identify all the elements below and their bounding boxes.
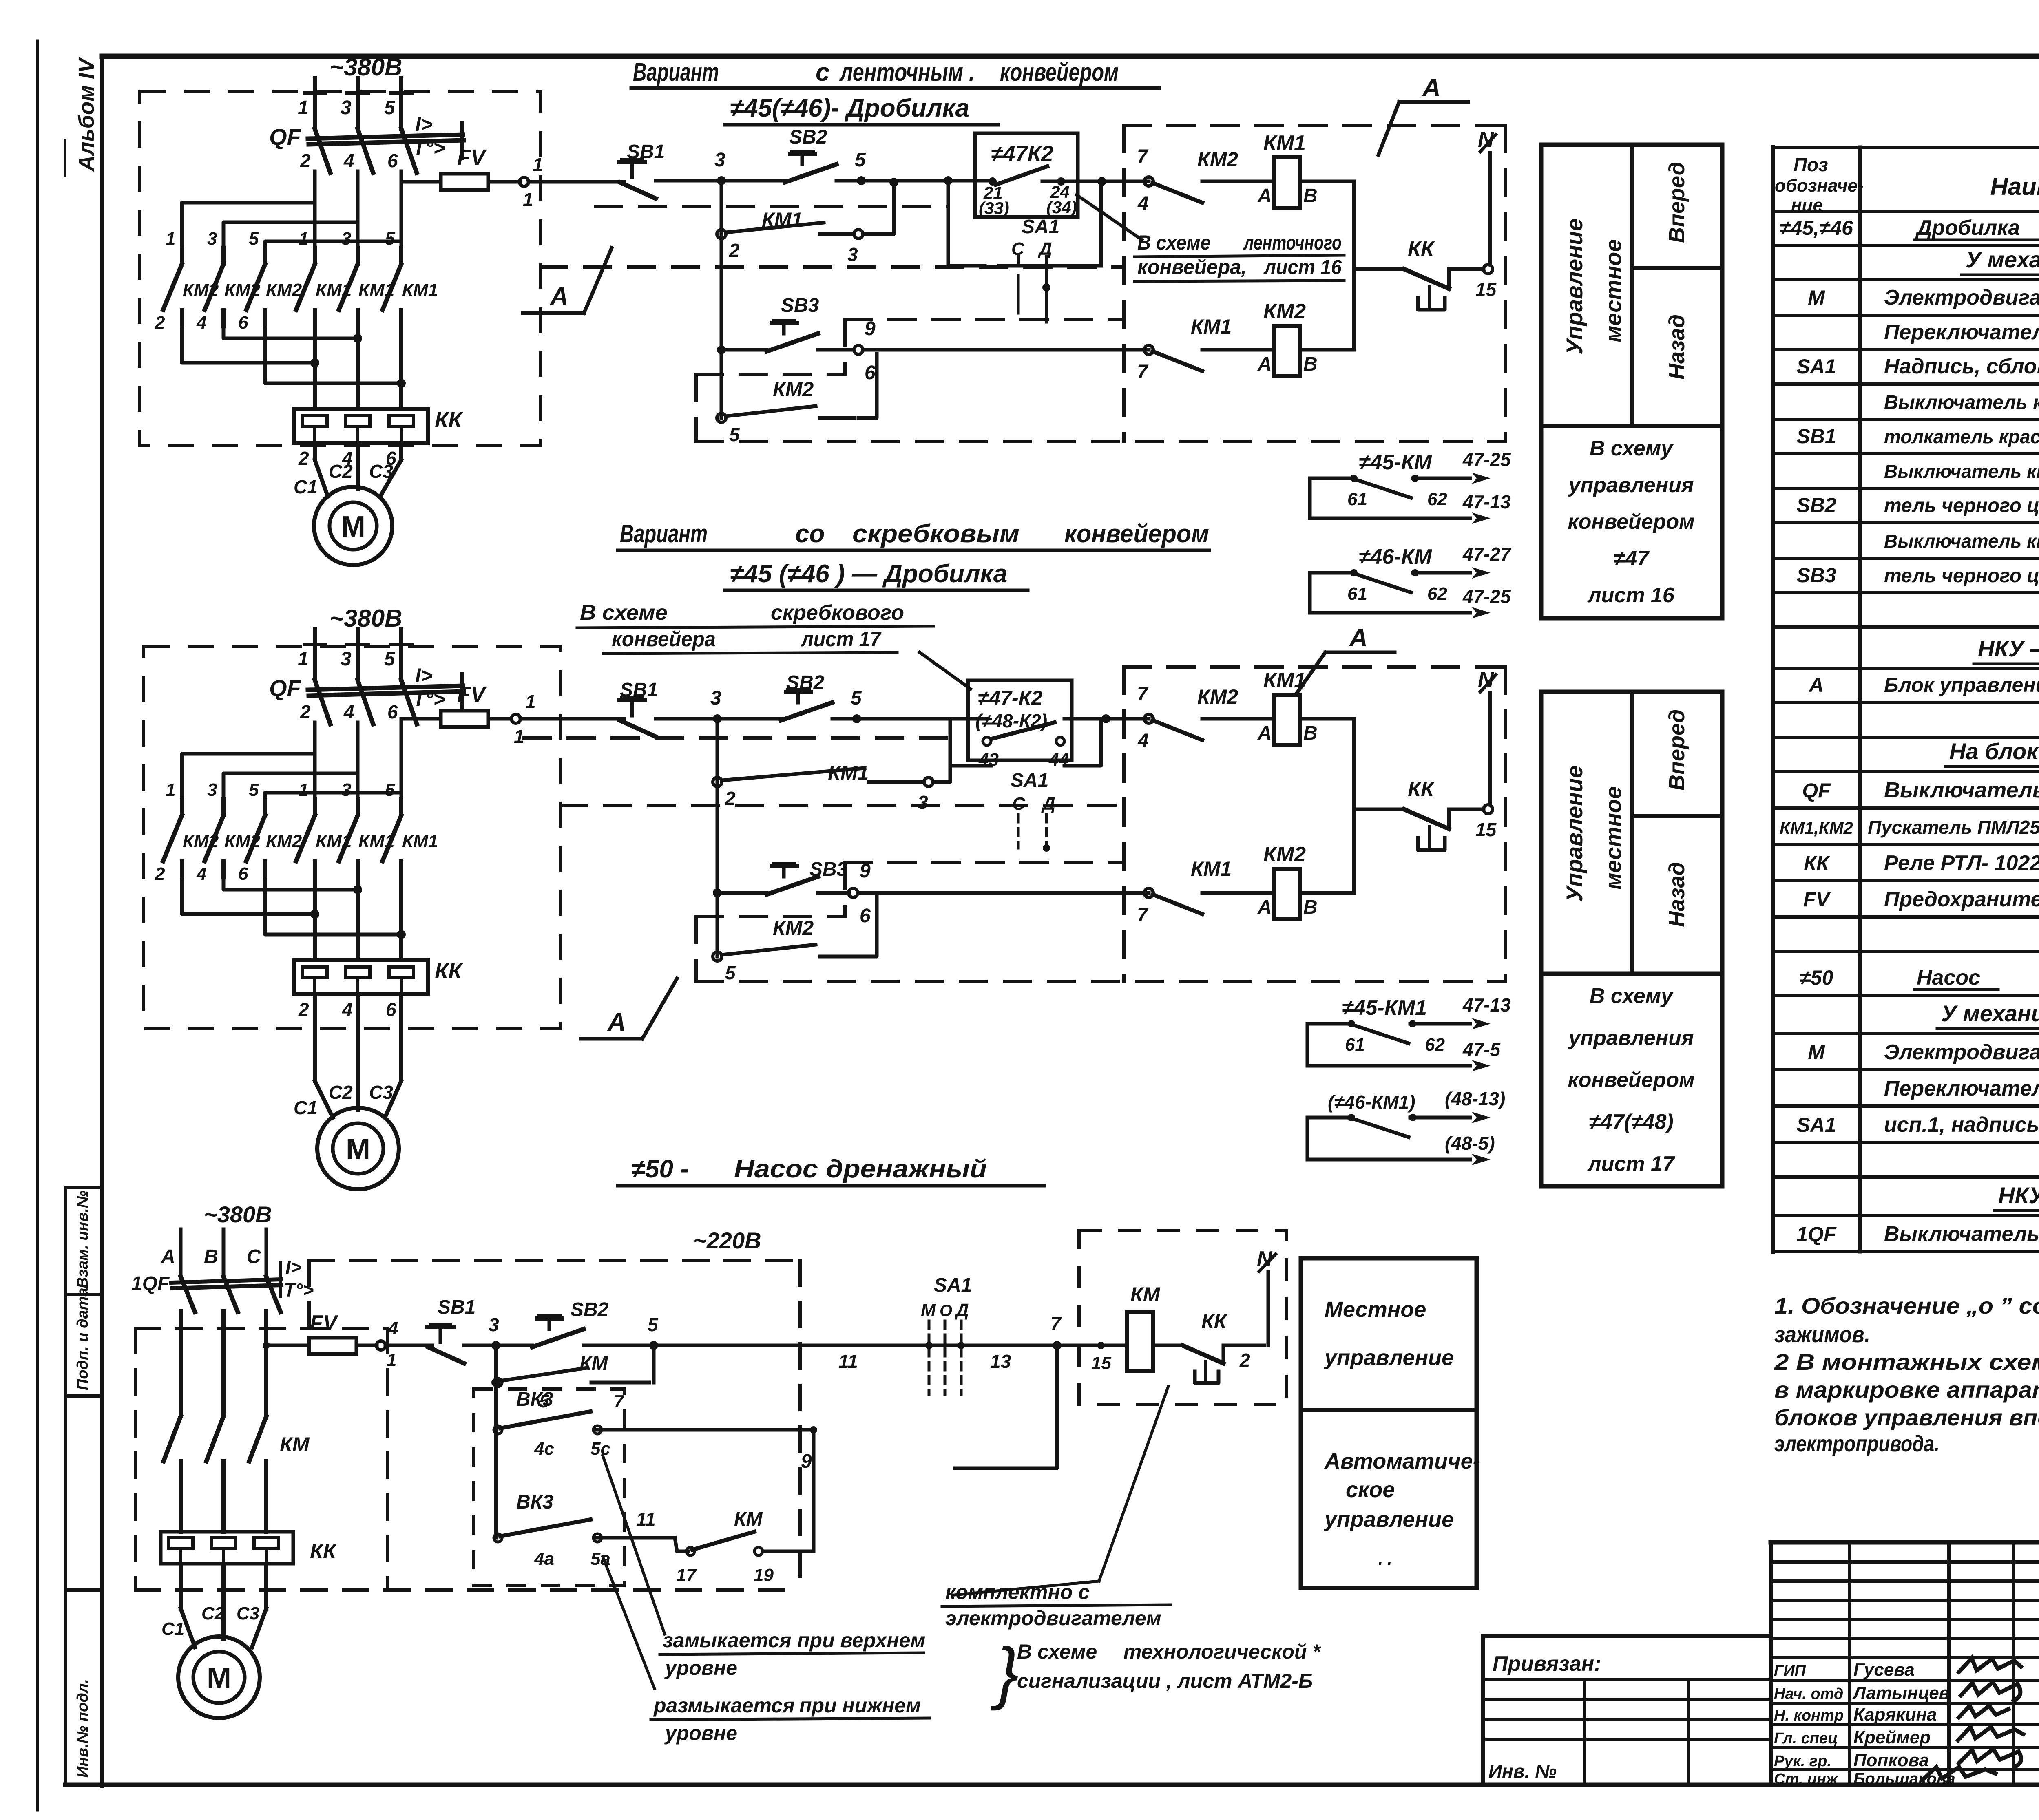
svg-text:Надпись, сблокир—деблокир. ”: Надпись, сблокир—деблокир. ”: [1884, 355, 2039, 378]
pump thermal relay KK heaters: [161, 1532, 293, 1564]
svg-text:А: А: [1257, 353, 1272, 375]
title block outer: [1771, 1540, 2039, 1545]
svg-text:1: 1: [533, 154, 543, 175]
pump node 5: [649, 1341, 658, 1350]
svg-text:17: 17: [676, 1565, 697, 1585]
callout to conveyor scheme: [1077, 195, 1142, 240]
svg-text:сигнализации , лист АТМ2-Б: сигнализации , лист АТМ2-Б: [1017, 1670, 1313, 1692]
svg-text:местное: местное: [1600, 786, 1626, 890]
wire SB2 to node 5 v2: [832, 717, 857, 721]
svg-text:4: 4: [343, 150, 354, 171]
pump phase A: [179, 1229, 183, 1277]
neutral N wire: [1488, 153, 1492, 265]
svg-text:≠47: ≠47: [1614, 547, 1650, 570]
pump contactor coil KM: [1127, 1312, 1153, 1371]
svg-text:ВК3: ВК3: [516, 1389, 553, 1410]
svg-text:Управление: Управление: [1561, 766, 1587, 902]
svg-text:уровне: уровне: [664, 1657, 737, 1679]
svg-text:лист 16: лист 16: [1587, 583, 1675, 607]
svg-text:≠45,≠46: ≠45,≠46: [1780, 216, 1853, 239]
svg-text:Пускатель ПМЛ250104Б с прист: Пускатель ПМЛ250104Б с приставкой ПКЛ220…: [1868, 817, 2039, 838]
svg-text:2: 2: [1239, 1350, 1250, 1371]
svg-text:~380В: ~380В: [330, 53, 402, 81]
SA1 selector bracket v2: [950, 719, 991, 766]
svg-text:7: 7: [1137, 904, 1149, 926]
svg-text:конвейера: конвейера: [612, 627, 716, 651]
svg-text:(≠46-КМ1): (≠46-КМ1): [1328, 1091, 1415, 1113]
svg-text:4: 4: [342, 999, 353, 1020]
svg-text:5: 5: [384, 648, 396, 670]
svg-text:На блоке управления: На блоке управления: [1949, 738, 2039, 764]
svg-text:Выключатель кнопочный КЕ 08: Выключатель кнопочный КЕ 081, исп2 , тол…: [1884, 461, 2039, 482]
pump node 3: [491, 1341, 500, 1350]
svg-text:62: 62: [1427, 489, 1447, 509]
svg-text:5: 5: [729, 424, 740, 445]
svg-text:Альбом IV: Альбом IV: [74, 57, 99, 172]
svg-text:С2: С2: [201, 1604, 225, 1623]
svg-text:ленточного: ленточного: [1243, 231, 1342, 254]
svg-text:1: 1: [299, 780, 308, 800]
svg-text:управление: управление: [1323, 1345, 1454, 1370]
svg-text:КК: КК: [1408, 237, 1435, 261]
node 7 terminal: [1144, 177, 1153, 186]
svg-text:~380В: ~380В: [204, 1202, 272, 1227]
svg-text:3: 3: [918, 792, 928, 813]
wire KM1 aux to node: [820, 232, 854, 236]
node 9 terminal v2: [849, 888, 858, 897]
interlock contact 47K2 box: [975, 133, 1078, 217]
svg-text:SA1: SA1: [1796, 355, 1836, 378]
svg-text:управление: управление: [1323, 1507, 1454, 1532]
svg-text:SA1: SA1: [1011, 770, 1048, 791]
svg-text:О: О: [940, 1302, 952, 1320]
float switch note lower: [603, 1557, 655, 1689]
svg-text:1QF: 1QF: [131, 1273, 170, 1294]
svg-text:С2: С2: [329, 461, 353, 482]
contactor coil КМ1: [1274, 695, 1300, 745]
svg-text:Взам. инв.№: Взам. инв.№: [74, 1191, 91, 1288]
legend box control local: [1541, 145, 1722, 426]
svg-text:зажимов.: зажимов.: [1774, 1321, 1870, 1347]
svg-text:А: А: [1257, 722, 1272, 744]
svg-text:4: 4: [388, 1318, 398, 1338]
wire QF outputs: [313, 722, 317, 754]
svg-text:В: В: [1303, 722, 1318, 744]
svg-text:с: с: [816, 58, 829, 86]
svg-text:КМ1: КМ1: [402, 280, 438, 300]
block A dashed box variant1: [1124, 124, 1506, 127]
pump node 15: [1097, 1342, 1105, 1349]
thermal relay KK contact: [1404, 809, 1449, 829]
name table grid: [1771, 1560, 2039, 1564]
svg-text:2: 2: [298, 999, 309, 1020]
pump neutral N: [1267, 1272, 1270, 1345]
privyazan box: [1483, 1634, 1771, 1638]
wire coil KM1 to right bus: [1300, 180, 1354, 183]
wire to KK contact v2: [1354, 808, 1404, 811]
wire to motor: [313, 994, 317, 1081]
svg-text:47-5: 47-5: [1462, 1039, 1501, 1060]
pump fuse FV: [309, 1338, 356, 1354]
svg-text:≠45(≠46)- Дробилка: ≠45(≠46)- Дробилка: [730, 94, 969, 122]
wire jumper to KM2 pole 3: [400, 182, 403, 241]
aux contact KM2 self-hold row v2: [713, 952, 722, 961]
svg-text:1: 1: [166, 229, 175, 249]
svg-text:Креймер: Креймер: [1853, 1727, 1931, 1747]
svg-text:конвейером: конвейером: [1568, 1068, 1694, 1092]
QF release bracket I> T>: [460, 674, 464, 709]
svg-text:4: 4: [1137, 193, 1149, 214]
svg-text:7: 7: [1137, 683, 1149, 705]
svg-text:5: 5: [851, 687, 862, 709]
node junction before 47K2: [944, 176, 953, 185]
motor M: [317, 1108, 399, 1189]
svg-text:SA1: SA1: [934, 1274, 972, 1296]
wire phase 1: [313, 78, 317, 129]
fuse FV: [441, 711, 488, 727]
block A dashed box variant2: [1124, 665, 1506, 669]
wire phase 5: [399, 629, 403, 680]
svg-text:Привязан:: Привязан:: [1493, 1652, 1601, 1676]
sheet border frame: [102, 54, 2039, 59]
svg-text:~380В: ~380В: [330, 605, 402, 632]
variant 2 power block dashed outline: [144, 646, 560, 1028]
svg-text:обозначе-: обозначе-: [1775, 176, 1864, 196]
svg-text:Назад: Назад: [1665, 314, 1689, 380]
wire phase 1: [313, 629, 317, 680]
sheet outer margin line: [36, 41, 39, 1810]
svg-text:13: 13: [990, 1351, 1011, 1372]
svg-text:Вперед: Вперед: [1665, 709, 1689, 791]
svg-text:2: 2: [298, 448, 309, 469]
legend box control local: [1541, 692, 1722, 974]
svg-text:Переключатель управления: Переключатель управления ПЕ 071, исп.1: [1884, 320, 2039, 344]
svg-text:У механизма: У механизма: [1966, 247, 2039, 272]
wire to motor: [313, 443, 317, 460]
svg-text:62: 62: [1427, 584, 1447, 604]
contactor coil КМ2: [1274, 869, 1300, 919]
47K2 contact blade: [996, 166, 1047, 185]
svg-text:конвейера,: конвейера,: [1137, 256, 1247, 278]
svg-text:(48-13): (48-13): [1445, 1088, 1505, 1109]
svg-text:SA1: SA1: [1022, 216, 1059, 238]
svg-text:≠50: ≠50: [1799, 966, 1833, 989]
svg-text:Электродвигатель ГНОМ 1: Электродвигатель ГНОМ 16-15: [1884, 1040, 2039, 1064]
svg-text:47-27: 47-27: [1462, 543, 1512, 565]
wire phase 3: [356, 78, 360, 129]
node 9 terminal: [854, 345, 863, 354]
svg-text:КМ1: КМ1: [828, 762, 869, 784]
aux contact KM1 self-hold row v2: [713, 777, 722, 786]
node 7 row2 terminal: [1144, 345, 1153, 354]
svg-text:В схему: В схему: [1590, 984, 1674, 1008]
legend box to conveyor scheme: [1541, 426, 1722, 618]
svg-text:1: 1: [298, 97, 309, 119]
svg-text:3: 3: [489, 1314, 499, 1335]
svg-text:Переключатель управления: Переключатель управления ПЕ 081: [1884, 1077, 2039, 1100]
svg-text:М: М: [921, 1300, 936, 1320]
svg-text:Вперед: Вперед: [1665, 162, 1689, 243]
float switch dashed box: [473, 1389, 624, 1585]
svg-text:FV: FV: [457, 145, 487, 170]
svg-text:управления: управления: [1567, 473, 1694, 497]
svg-text:3: 3: [710, 687, 721, 709]
node 15 terminal: [1484, 265, 1493, 274]
svg-text:С1: С1: [294, 1097, 318, 1118]
svg-text:лист 17: лист 17: [1587, 1152, 1675, 1176]
motor M: [314, 487, 392, 565]
svg-text:ние: ние: [1791, 195, 1823, 215]
svg-text:SB2: SB2: [789, 126, 827, 148]
node 5 v2: [852, 714, 861, 723]
thermal relay KK heaters: [294, 960, 428, 994]
svg-text:4с: 4с: [534, 1439, 554, 1459]
node 3: [717, 176, 726, 185]
svg-text:T°>: T°>: [413, 688, 445, 711]
svg-text:SB3: SB3: [781, 295, 819, 316]
svg-text:2: 2: [725, 788, 736, 809]
svg-text:61: 61: [1345, 1035, 1365, 1055]
svg-text:лист 17: лист 17: [800, 627, 882, 651]
svg-text:Д: Д: [1037, 239, 1052, 259]
svg-text:1: 1: [166, 780, 175, 800]
svg-text:SA1: SA1: [1796, 1113, 1836, 1136]
svg-text:скребкового: скребкового: [771, 601, 904, 625]
svg-text:Назад: Назад: [1665, 862, 1689, 927]
wire coil KM1 to right bus v2: [1300, 717, 1354, 721]
svg-text:1QF: 1QF: [1796, 1223, 1837, 1246]
svg-text:Насос дренажный: Насос дренажный: [734, 1155, 987, 1183]
svg-text:6: 6: [387, 150, 398, 171]
wire contact outputs merge: [223, 326, 358, 338]
svg-text:5: 5: [648, 1314, 659, 1335]
svg-text:КК: КК: [310, 1539, 337, 1563]
svg-text:2: 2: [300, 150, 311, 171]
svg-text:У механизма: У механизма: [1941, 1001, 2039, 1026]
svg-text:А: А: [607, 1008, 626, 1036]
47K2 terminals: [989, 177, 997, 186]
svg-text:Гусева: Гусева: [1853, 1660, 1915, 1680]
svg-text:3: 3: [714, 149, 725, 171]
svg-text:замыкается: замыкается: [663, 1629, 792, 1652]
svg-text:размыкается: размыкается: [653, 1694, 795, 1717]
svg-text:5: 5: [385, 780, 395, 800]
wire phase 5: [399, 78, 403, 129]
QF release bracket I> T>: [460, 122, 464, 158]
wire KK to node 15 v2: [1449, 808, 1484, 811]
svg-text:А: А: [1422, 74, 1441, 102]
svg-text:7: 7: [1137, 146, 1149, 168]
svg-text:КК: КК: [435, 959, 463, 983]
svg-text:4: 4: [343, 701, 354, 722]
svg-text:со: со: [795, 520, 825, 548]
SA1 selector bracket: [948, 181, 985, 266]
svg-text:Вариант: Вариант: [620, 520, 708, 548]
contactor coil КМ2: [1274, 326, 1300, 376]
svg-text:КМ2: КМ2: [266, 831, 302, 851]
svg-text:конвейером: конвейером: [1000, 58, 1119, 86]
svg-text:QF: QF: [269, 124, 302, 150]
svg-text:ленточным .: ленточным .: [839, 58, 975, 86]
svg-text:исп.1, надпись „местн. -0: исп.1, надпись „местн. -0- дист.”: [1884, 1113, 2039, 1137]
pump node terminal 4/1: [376, 1341, 385, 1350]
svg-text:С1: С1: [294, 476, 318, 497]
variant2 dashed boundary mid: [560, 804, 1121, 807]
components table grid: [1773, 146, 2039, 149]
svg-text:3: 3: [341, 229, 351, 249]
svg-text:В: В: [1303, 185, 1318, 207]
svg-text:комплектно с: комплектно с: [945, 1581, 1090, 1604]
neutral N wire v2: [1488, 693, 1492, 805]
local control box: [1301, 1258, 1477, 1588]
svg-text:5: 5: [385, 229, 395, 249]
svg-text:Выключатель кнопочный КЕ: Выключатель кнопочный КЕ 081, исп.2,толк…: [1884, 530, 2039, 552]
svg-text:1: 1: [387, 1350, 396, 1370]
thermal relay KK contact: [1404, 269, 1449, 289]
svg-text:местное: местное: [1600, 239, 1626, 342]
svg-text:НКУ — Щит 6Щ: НКУ — Щит 6Щ: [1978, 636, 2039, 661]
svg-text:SB2: SB2: [1796, 494, 1836, 517]
svg-text:КМ2: КМ2: [1263, 300, 1306, 323]
wire node3 vertical v2: [716, 719, 719, 956]
svg-text:3: 3: [341, 648, 352, 670]
svg-text:Рук. гр.: Рук. гр.: [1774, 1753, 1831, 1770]
svg-text:47-13: 47-13: [1462, 994, 1511, 1016]
svg-text:C: C: [247, 1246, 261, 1268]
svg-text:Вариант: Вариант: [633, 58, 719, 86]
svg-text:FV: FV: [310, 1311, 339, 1335]
svg-text:КМ1: КМ1: [1191, 315, 1232, 338]
variant2 dashed boundary lower path: [845, 861, 1124, 864]
contactor coil КМ1: [1274, 157, 1300, 208]
svg-text:Дробилка: Дробилка: [1915, 216, 2020, 240]
svg-text:4: 4: [196, 864, 206, 884]
svg-text:(48-5): (48-5): [1445, 1133, 1495, 1154]
svg-text:толкатель красного цвета, н: толкатель красного цвета, надпись„ Стоп …: [1884, 426, 2039, 447]
svg-text:I>: I>: [285, 1257, 302, 1278]
svg-text:QF: QF: [1802, 779, 1831, 802]
svg-text:≠47-К2: ≠47-К2: [978, 687, 1042, 709]
svg-text:SB3: SB3: [1796, 564, 1836, 587]
svg-text:КК: КК: [1408, 777, 1435, 801]
svg-text:Карякина: Карякина: [1853, 1705, 1937, 1725]
svg-text:11: 11: [636, 1509, 656, 1530]
comment leader to motor assembly: [1099, 1386, 1168, 1581]
svg-text:4: 4: [1137, 730, 1149, 752]
svg-text:2: 2: [155, 864, 165, 884]
svg-text:ГИП: ГИП: [1774, 1662, 1806, 1679]
thermal relay KK heaters: [294, 409, 428, 443]
variant1 dashed boundary upper: [595, 205, 948, 208]
svg-text:15: 15: [1475, 279, 1497, 300]
svg-text:Выключатель АЕ 2026 -10: Выключатель АЕ 2026 -10У3: [1884, 1222, 2039, 1246]
wire jumper to KM2 pole 2: [223, 773, 358, 799]
svg-text:КМ1: КМ1: [402, 831, 438, 851]
interlock contact 47-K2 box v2: [968, 680, 1072, 760]
svg-text:М: М: [207, 1662, 231, 1694]
svg-text:Выключатель АЕ 2036 - 10У3: Выключатель АЕ 2036 - 10У3: [1884, 778, 2039, 802]
svg-text:А: А: [1257, 185, 1272, 207]
pump phase C: [265, 1229, 268, 1277]
1QF release bracket: [279, 1263, 282, 1297]
svg-text:≠47(≠48): ≠47(≠48): [1589, 1110, 1673, 1134]
svg-text:В схеме: В схеме: [1017, 1640, 1097, 1663]
pump control wire: [266, 1344, 309, 1347]
svg-text:Поз: Поз: [1794, 154, 1828, 175]
svg-text:С2: С2: [329, 1082, 353, 1103]
svg-text:6: 6: [860, 905, 871, 927]
svg-text:FV: FV: [1803, 888, 1831, 911]
svg-text:КМ2: КМ2: [773, 378, 814, 401]
svg-text:3: 3: [341, 97, 352, 119]
svg-text:≠50 -: ≠50 -: [631, 1155, 689, 1183]
svg-text:лист 16: лист 16: [1263, 256, 1342, 278]
svg-text:15: 15: [1475, 819, 1497, 840]
pump block dashed box: [1079, 1230, 1287, 1404]
svg-text:Управление: Управление: [1561, 219, 1587, 355]
pump KM self-hold branch: [494, 1345, 498, 1383]
left margin stamp boxes: [64, 1187, 67, 1785]
svg-text:С3: С3: [369, 1082, 393, 1103]
svg-text:1: 1: [523, 189, 533, 210]
svg-text:Электродвигатель 4А160S6: Электродвигатель 4А160S6: [1884, 286, 2039, 309]
svg-text:КМ: КМ: [280, 1433, 310, 1456]
47-K2 contact blade v2: [992, 722, 1055, 739]
node junction after 47K2 v2: [1101, 714, 1110, 723]
signatures: [1957, 1658, 2022, 1674]
aux contact KM1 self-hold row: [717, 230, 726, 239]
svg-text:≠45-КМ1: ≠45-КМ1: [1342, 996, 1427, 1020]
svg-text:1: 1: [525, 691, 536, 712]
svg-text:SB1: SB1: [1796, 425, 1836, 448]
svg-text:Местное: Местное: [1325, 1297, 1426, 1322]
svg-text:Предохранитель ППТ- 10У3: Предохранитель ППТ- 10У3: [1884, 888, 2039, 911]
svg-text:Подп. и дата: Подп. и дата: [74, 1288, 91, 1390]
47-K2 terminals v2: [983, 737, 991, 745]
svg-text:I>: I>: [415, 113, 433, 136]
svg-text:(34): (34): [1046, 198, 1077, 217]
svg-text:КМ: КМ: [734, 1509, 763, 1530]
svg-text:Автоматиче-: Автоматиче-: [1324, 1449, 1480, 1473]
svg-text:Выключатель кнопочный КЕ: Выключатель кнопочный КЕ 081, исп.2,: [1884, 392, 2039, 413]
svg-text:5: 5: [855, 149, 866, 171]
node 3 v2: [713, 714, 722, 723]
svg-text:Н. контр: Н. контр: [1774, 1707, 1844, 1724]
svg-text:А: А: [1257, 897, 1272, 918]
wire coil KM2 to right bus: [1300, 348, 1354, 352]
wire to KK contact: [1354, 267, 1404, 271]
svg-text:А: А: [549, 283, 568, 311]
svg-text:КК: КК: [1201, 1310, 1228, 1333]
svg-text:С3: С3: [237, 1604, 259, 1623]
svg-text:2: 2: [155, 313, 165, 333]
svg-text:FV: FV: [457, 682, 487, 707]
wire node3 vertical: [720, 181, 723, 418]
svg-text:Попкова: Попкова: [1853, 1750, 1929, 1770]
svg-text:1. Обозначение „о ” соотве: 1. Обозначение „о ” соответствует заводс…: [1774, 1293, 2039, 1319]
svg-text:3: 3: [847, 244, 858, 265]
svg-text:КМ2: КМ2: [1263, 843, 1306, 866]
pump phase B: [222, 1229, 226, 1277]
node 15 terminal v2: [1484, 805, 1493, 814]
svg-text:47-13: 47-13: [1462, 491, 1511, 512]
aux contact KM2 self-hold row: [717, 413, 726, 422]
float switch note upper: [603, 1456, 665, 1634]
svg-text:КМ2: КМ2: [773, 917, 814, 939]
svg-text:Инв. №: Инв. №: [1488, 1760, 1557, 1782]
svg-text:2: 2: [729, 240, 740, 261]
svg-text:М: М: [1808, 1041, 1825, 1064]
